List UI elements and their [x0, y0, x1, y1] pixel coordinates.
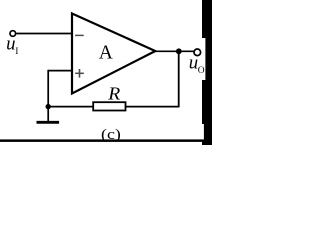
svg-text:R: R: [107, 83, 120, 103]
svg-text:O: O: [198, 66, 205, 76]
svg-text:u: u: [6, 35, 15, 55]
svg-text:A: A: [99, 43, 113, 64]
svg-text:(c): (c): [101, 127, 121, 143]
svg-text:I: I: [15, 46, 18, 56]
